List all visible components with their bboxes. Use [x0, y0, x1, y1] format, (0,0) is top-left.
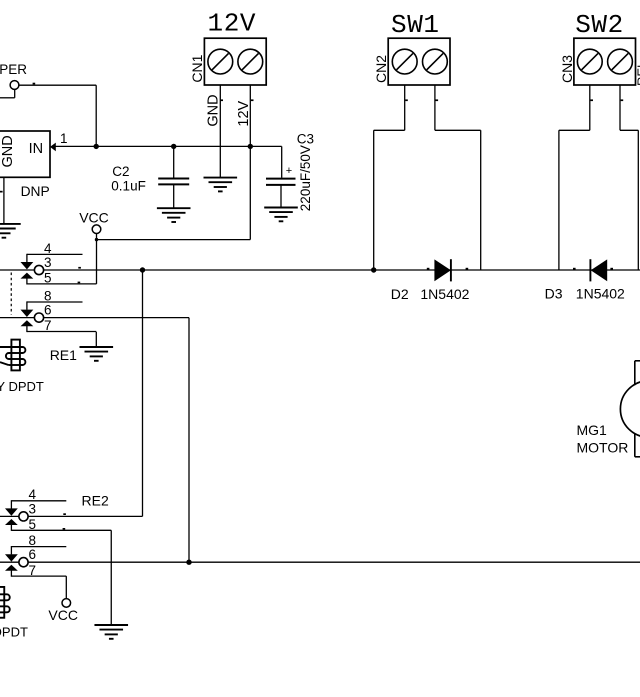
- svg-text:1N5402: 1N5402: [576, 286, 625, 302]
- svg-text:12V: 12V: [208, 9, 257, 39]
- svg-text:3: 3: [44, 255, 52, 270]
- svg-text:RE2: RE2: [82, 492, 109, 508]
- svg-text:GND: GND: [0, 135, 16, 167]
- svg-text:MOTOR: MOTOR: [577, 439, 629, 455]
- svg-text:CN1: CN1: [189, 54, 205, 82]
- svg-text:REL: REL: [635, 61, 640, 86]
- svg-text:SW2: SW2: [575, 10, 624, 40]
- svg-text:5: 5: [44, 271, 52, 286]
- svg-text:VCC: VCC: [79, 209, 109, 225]
- svg-text:5: 5: [29, 517, 37, 532]
- svg-text:4: 4: [29, 487, 37, 502]
- svg-text:VCC: VCC: [48, 607, 78, 623]
- svg-text:7: 7: [44, 318, 52, 333]
- svg-text:8: 8: [29, 533, 37, 548]
- svg-text:D2: D2: [391, 286, 409, 302]
- svg-text:JUMPER: JUMPER: [0, 62, 27, 77]
- svg-text:RELAY DPDT: RELAY DPDT: [0, 379, 44, 394]
- svg-text:220uF/50V: 220uF/50V: [298, 145, 313, 211]
- svg-text:RELAY DPDT: RELAY DPDT: [0, 624, 28, 639]
- svg-text:IN: IN: [29, 141, 43, 157]
- svg-text:6: 6: [44, 303, 52, 318]
- svg-text:C2: C2: [112, 164, 129, 179]
- svg-text:C3: C3: [297, 131, 314, 146]
- svg-text:8: 8: [44, 288, 52, 303]
- svg-text:1: 1: [60, 131, 68, 146]
- svg-text:3: 3: [29, 501, 37, 516]
- svg-text:CN3: CN3: [559, 55, 575, 83]
- svg-text:CN2: CN2: [373, 55, 389, 83]
- svg-text:6: 6: [29, 547, 37, 562]
- svg-text:DNP: DNP: [21, 184, 50, 199]
- svg-text:SW1: SW1: [391, 10, 440, 40]
- svg-text:MG1: MG1: [577, 422, 608, 438]
- svg-text:0.1uF: 0.1uF: [111, 179, 146, 194]
- svg-text:12V: 12V: [236, 100, 252, 126]
- svg-text:RE1: RE1: [50, 347, 77, 363]
- svg-text:GND: GND: [205, 94, 221, 126]
- svg-text:7: 7: [29, 563, 37, 578]
- svg-text:D3: D3: [545, 286, 563, 302]
- svg-text:+: +: [286, 165, 292, 177]
- svg-text:1N5402: 1N5402: [420, 286, 469, 302]
- svg-text:4: 4: [44, 241, 52, 256]
